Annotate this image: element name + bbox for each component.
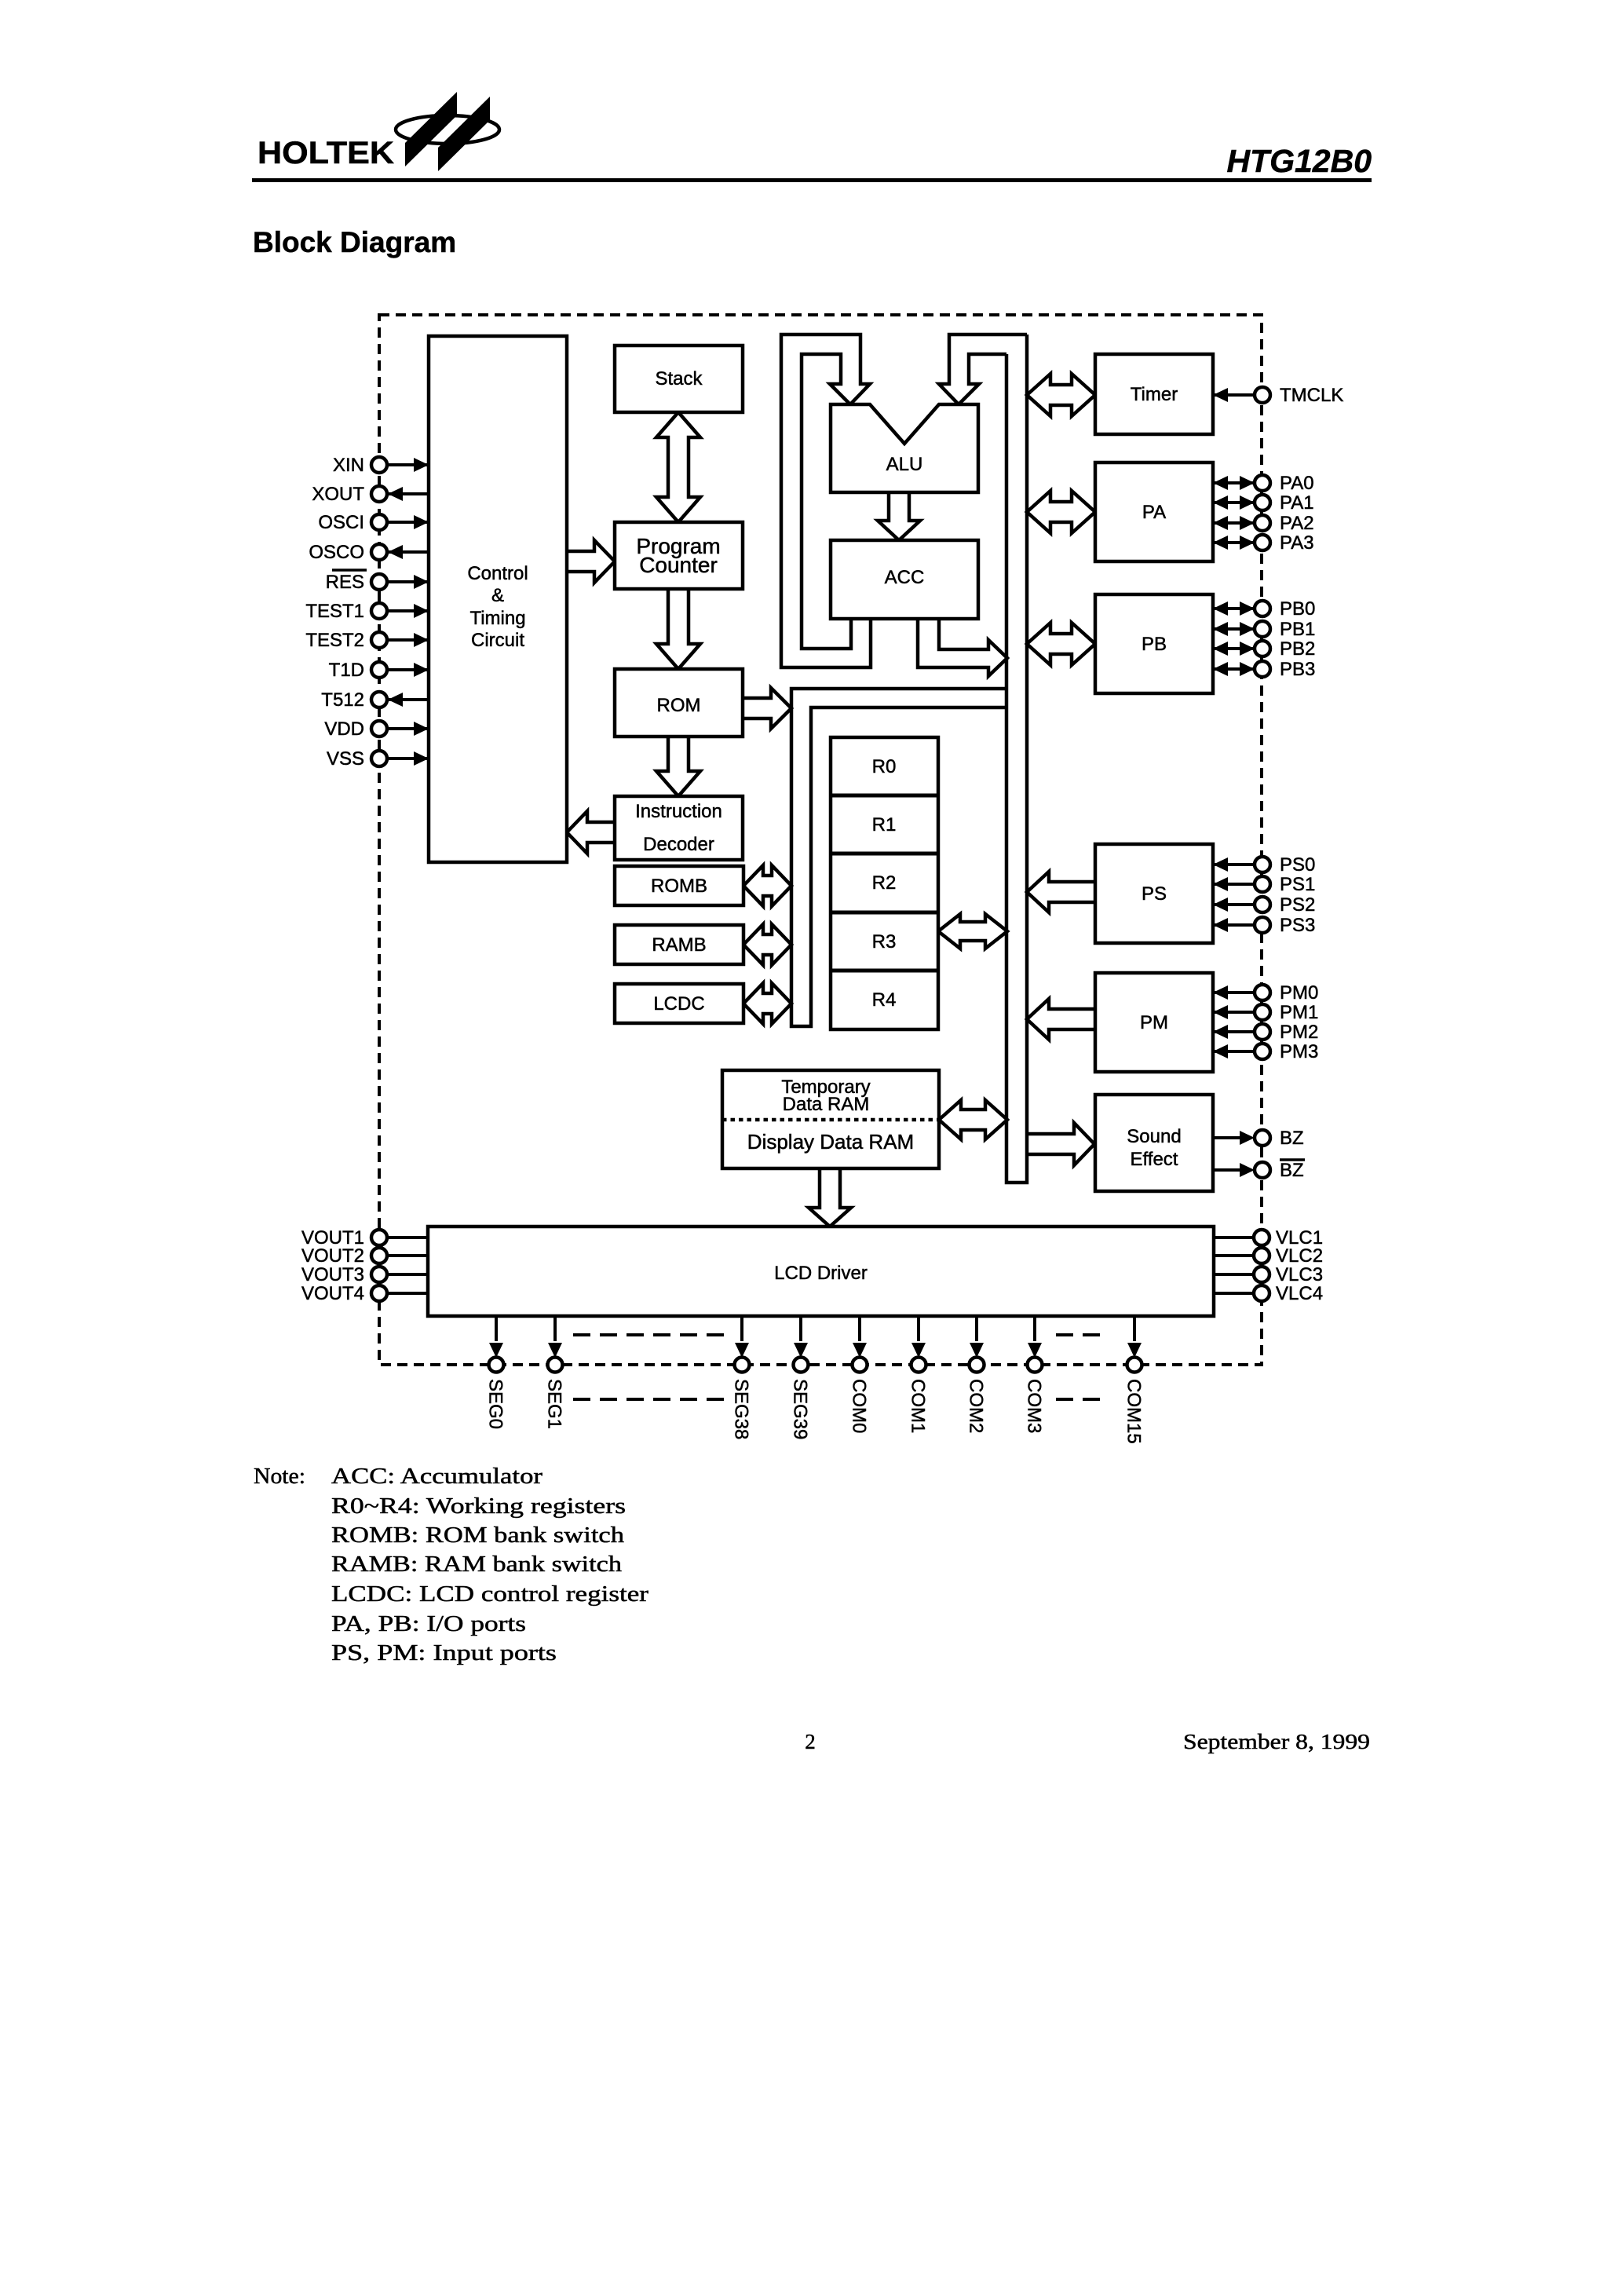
pin PM3 [1213, 1041, 1318, 1062]
svg-text:OSCI: OSCI [318, 512, 364, 533]
pin VOUT1 [301, 1227, 428, 1249]
svg-text:T512: T512 [321, 689, 364, 711]
svg-text:VOUT2: VOUT2 [301, 1245, 364, 1267]
arrow: data RAM and bus (bidirectional) [939, 1100, 1007, 1139]
block LCDC [615, 984, 743, 1023]
pin SEG39 [790, 1316, 811, 1439]
svg-text:PM2: PM2 [1280, 1022, 1318, 1043]
block Control and Timing Circuit [429, 336, 567, 862]
svg-text:PB0: PB0 [1280, 598, 1315, 620]
page number [805, 1730, 816, 1753]
svg-text:TEST1: TEST1 [305, 601, 364, 622]
pin PS2 [1213, 894, 1315, 916]
block Temporary Data RAM / Display Data RAM [722, 1070, 939, 1168]
pin TMCLK [1213, 385, 1343, 406]
pin PB0 [1213, 598, 1315, 620]
pin XIN [333, 455, 429, 476]
pin PB2 [1213, 638, 1315, 660]
svg-text:COM3: COM3 [1024, 1379, 1045, 1433]
part number HTG12B0 [1226, 143, 1372, 179]
svg-text:PA, PB: I/O ports: PA, PB: I/O ports [331, 1611, 526, 1636]
svg-text:RES: RES [326, 572, 364, 593]
arrow: bus to Sound Effect [1027, 1123, 1094, 1165]
svg-text:PS3: PS3 [1280, 915, 1315, 936]
pin COM3 [1024, 1316, 1045, 1433]
pin SEG0 [485, 1316, 506, 1429]
bus: ACC to ALU left feedback loop [781, 335, 871, 667]
svg-text:ROMB: ROM bank switch: ROMB: ROM bank switch [331, 1523, 625, 1548]
pin PS0 [1213, 854, 1315, 876]
svg-text:ROMB: ROMB [651, 876, 707, 897]
note text [254, 1464, 648, 1665]
svg-text:PM0: PM0 [1280, 982, 1318, 1004]
svg-text:PB: PB [1142, 634, 1167, 655]
svg-text:Circuit: Circuit [471, 630, 524, 651]
ellipsis dashes between COM3 and COM15 [1056, 1335, 1107, 1399]
svg-text:VLC2: VLC2 [1276, 1245, 1323, 1267]
arrow: ROMB and bus (bidirectional) [743, 865, 791, 906]
pin VOUT4 [301, 1283, 428, 1304]
svg-text:PS2: PS2 [1280, 894, 1315, 916]
svg-text:PA3: PA3 [1280, 532, 1314, 554]
pin PM0 [1213, 982, 1318, 1004]
pin PA1 [1213, 492, 1314, 514]
Holtek logo ellipse [396, 115, 499, 144]
pin TEST2 [305, 630, 429, 651]
svg-text:PB2: PB2 [1280, 638, 1315, 660]
pin PB1 [1213, 619, 1315, 640]
svg-text:VLC3: VLC3 [1276, 1264, 1323, 1285]
svg-text:PM: PM [1140, 1012, 1168, 1033]
pin VSS [327, 748, 429, 770]
svg-text:COM1: COM1 [908, 1379, 929, 1433]
pin TEST1 [305, 601, 429, 622]
bus: main data bus vertical [1006, 335, 1027, 1183]
arrow: bus and PB (bidirectional) [1027, 623, 1095, 665]
svg-text:HTG12B0: HTG12B0 [1226, 143, 1372, 179]
pin COM2 [966, 1316, 987, 1433]
svg-text:PA: PA [1142, 502, 1166, 523]
svg-text:COM15: COM15 [1123, 1379, 1145, 1444]
arrow: Control to Program Counter [567, 540, 615, 583]
svg-text:VOUT3: VOUT3 [301, 1264, 364, 1285]
svg-text:XOUT: XOUT [312, 484, 364, 505]
pin COM0 [849, 1316, 870, 1433]
svg-text:BZ: BZ [1280, 1128, 1304, 1149]
svg-text:VOUT4: VOUT4 [301, 1283, 364, 1304]
svg-text:ACC: Accumulator: ACC: Accumulator [331, 1464, 542, 1489]
svg-text:SEG0: SEG0 [485, 1379, 506, 1429]
pin XOUT [312, 484, 429, 505]
ellipsis dashes between SEG1 and SEG38 [573, 1335, 725, 1399]
svg-text:VSS: VSS [327, 748, 364, 770]
svg-text:Instruction: Instruction [635, 801, 722, 822]
svg-text:SEG39: SEG39 [790, 1379, 811, 1439]
svg-text:R1: R1 [872, 814, 897, 835]
arrow: ALU to ACC [878, 492, 920, 540]
svg-text:LCD Driver: LCD Driver [774, 1263, 868, 1284]
pin SEG1 [544, 1316, 565, 1429]
svg-text:PS0: PS0 [1280, 854, 1315, 876]
svg-text:Counter: Counter [639, 553, 718, 577]
pin COM15 [1123, 1316, 1145, 1444]
svg-text:PM3: PM3 [1280, 1041, 1318, 1062]
arrow: Instruction Decoder to Control [567, 811, 615, 854]
arrow: ROM to Instruction Decoder [656, 737, 700, 796]
svg-text:PA2: PA2 [1280, 513, 1314, 534]
arrow: bus and PA (bidirectional) [1027, 491, 1095, 533]
svg-text:RAMB: RAMB [652, 934, 706, 956]
arrow: Program Counter to ROM [656, 589, 700, 669]
svg-text:HOLTEK: HOLTEK [258, 136, 394, 170]
arrow: PM to bus [1027, 999, 1095, 1040]
pin PA0 [1213, 473, 1314, 494]
bus: ROM bus horizontal and left branch [791, 689, 1007, 1026]
block Instruction Decoder [615, 796, 743, 860]
block PB [1095, 594, 1213, 693]
header rule [252, 178, 1372, 182]
svg-text:PA1: PA1 [1280, 492, 1314, 514]
block Timer [1095, 354, 1213, 434]
pin VOUT3 [301, 1264, 428, 1285]
pin COM1 [908, 1316, 929, 1433]
pin SEG38 [731, 1316, 752, 1439]
svg-text:TEST2: TEST2 [305, 630, 364, 651]
svg-text:OSCO: OSCO [309, 542, 364, 563]
block Stack [615, 345, 743, 412]
svg-text:Timing: Timing [469, 608, 525, 629]
svg-text:PS, PM: Input ports: PS, PM: Input ports [331, 1640, 557, 1665]
svg-text:BZ: BZ [1280, 1160, 1304, 1181]
block PM [1095, 973, 1213, 1072]
Holtek logo wordmark [258, 136, 394, 170]
svg-text:R4: R4 [872, 989, 897, 1011]
date [1183, 1730, 1370, 1753]
svg-text:XIN: XIN [333, 455, 364, 476]
pin PS3 [1213, 915, 1315, 936]
svg-text:Control: Control [467, 563, 528, 584]
svg-text:COM0: COM0 [849, 1379, 870, 1433]
pin BZ (active low) [1213, 1160, 1305, 1181]
svg-text:&: & [491, 585, 504, 606]
svg-text:LCDC: LCDC [653, 993, 704, 1015]
svg-text:Timer: Timer [1131, 384, 1178, 405]
pin T512 [321, 689, 429, 711]
pin BZ [1213, 1128, 1304, 1149]
block Program Counter [615, 522, 743, 589]
svg-text:Data RAM: Data RAM [783, 1094, 870, 1115]
arrow: LCDC and bus (bidirectional) [743, 983, 791, 1024]
svg-text:Decoder: Decoder [643, 834, 714, 855]
svg-text:VLC4: VLC4 [1276, 1283, 1323, 1304]
pin VLC3 [1214, 1264, 1323, 1285]
bus: ACC output to data bus (arrow) [918, 619, 1007, 676]
svg-text:SEG38: SEG38 [731, 1379, 752, 1439]
bus: data bus top turn into ALU right input [939, 335, 1027, 404]
svg-text:Note:: Note: [254, 1464, 305, 1489]
arrow: Display Data RAM to LCD Driver [809, 1168, 851, 1227]
block working registers R0-R4 [831, 737, 938, 1029]
svg-text:Block Diagram: Block Diagram [253, 226, 456, 258]
Holtek logo slash 2 [438, 97, 490, 171]
svg-text:T1D: T1D [329, 660, 364, 681]
svg-text:PS: PS [1142, 883, 1167, 905]
pin VOUT2 [301, 1245, 428, 1267]
svg-text:PM1: PM1 [1280, 1002, 1318, 1023]
svg-text:Display Data RAM: Display Data RAM [747, 1130, 914, 1153]
svg-text:LCDC: LCD control register: LCDC: LCD control register [331, 1581, 648, 1607]
pin RES [326, 570, 429, 593]
arrow: bus and Timer (bidirectional) [1027, 374, 1095, 416]
svg-text:Stack: Stack [655, 368, 703, 389]
svg-text:R3: R3 [872, 931, 897, 952]
pin VLC4 [1214, 1283, 1323, 1304]
block ROM [615, 669, 743, 737]
block PA [1095, 462, 1213, 561]
arrow: registers and bus (bidirectional) [938, 914, 1007, 949]
svg-text:PS1: PS1 [1280, 874, 1315, 895]
pin VLC1 [1214, 1227, 1323, 1249]
svg-text:2: 2 [805, 1730, 816, 1753]
pin PA3 [1213, 532, 1314, 554]
arrow: RAMB and bus (bidirectional) [743, 924, 791, 965]
block Sound Effect [1095, 1095, 1213, 1191]
arrow: PS to bus [1027, 872, 1095, 912]
svg-text:ALU: ALU [886, 454, 923, 475]
svg-text:VDD: VDD [324, 718, 364, 740]
svg-text:PA0: PA0 [1280, 473, 1314, 494]
block LCD Driver [428, 1227, 1214, 1316]
block ACC [831, 540, 978, 619]
svg-text:Effect: Effect [1131, 1149, 1178, 1170]
Holtek logo slash 1 [405, 92, 457, 166]
pin VLC2 [1214, 1245, 1323, 1267]
arrow: ROM to data bus [743, 688, 791, 729]
pin VDD [324, 718, 429, 740]
title Block Diagram [253, 226, 456, 258]
svg-text:TMCLK: TMCLK [1280, 385, 1343, 406]
pin PA2 [1213, 513, 1314, 534]
svg-text:PB3: PB3 [1280, 659, 1315, 680]
pin PM1 [1213, 1002, 1318, 1023]
svg-text:RAMB: RAM bank switch: RAMB: RAM bank switch [331, 1552, 623, 1577]
svg-text:SEG1: SEG1 [544, 1379, 565, 1429]
arrow: Stack and Program Counter (bidirectional) [656, 412, 700, 522]
pin PM2 [1213, 1022, 1318, 1043]
svg-text:PB1: PB1 [1280, 619, 1315, 640]
svg-text:COM2: COM2 [966, 1379, 987, 1433]
svg-text:R0~R4: Working registers: R0~R4: Working registers [331, 1493, 626, 1519]
pin T1D [329, 660, 429, 681]
svg-text:ACC: ACC [885, 567, 925, 588]
svg-text:Sound: Sound [1127, 1126, 1181, 1147]
block ALU [831, 404, 978, 492]
svg-text:ROM: ROM [657, 695, 701, 716]
block PS [1095, 844, 1213, 943]
pin OSCI [318, 512, 429, 533]
pin PS1 [1213, 874, 1315, 895]
chip boundary (dashed) [379, 315, 1262, 1365]
svg-text:September 8, 1999: September 8, 1999 [1183, 1730, 1370, 1753]
pin PB3 [1213, 659, 1315, 680]
block RAMB [615, 925, 743, 964]
block ROMB [615, 866, 743, 905]
svg-text:R0: R0 [872, 756, 897, 777]
pin OSCO [309, 542, 429, 563]
svg-text:R2: R2 [872, 872, 897, 894]
